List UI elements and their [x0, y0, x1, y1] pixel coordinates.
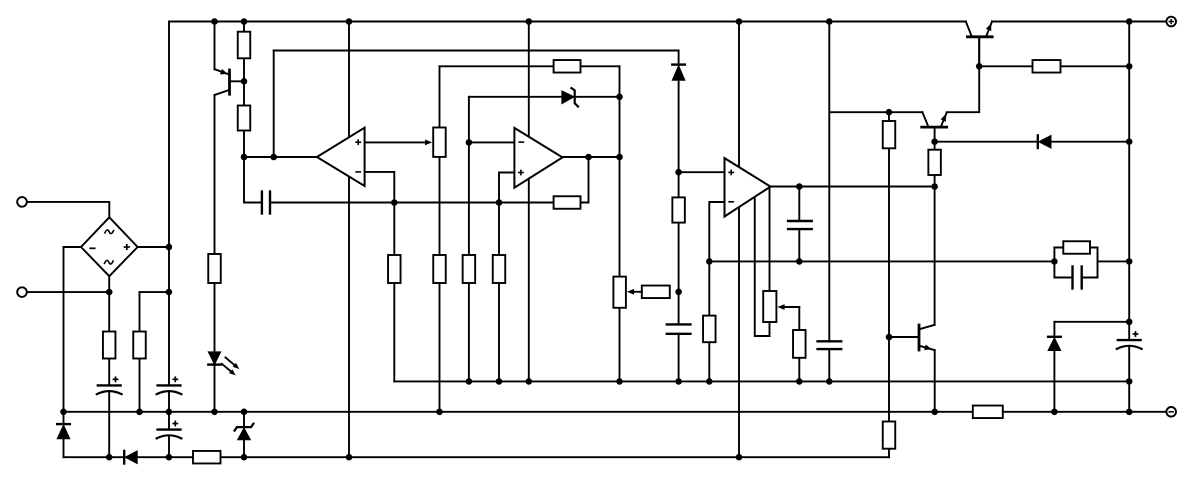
wire comp cap stub upper — [798, 187, 800, 222]
wire bridge minus column — [63, 247, 65, 424]
wire feedback cap to opamp line — [270, 202, 589, 204]
transistor Q4 emitter arrow — [986, 23, 991, 31]
junction J28 — [1051, 258, 1058, 265]
junction J49 — [436, 409, 443, 416]
wire column x934 to Q3 — [934, 142, 936, 325]
junction J3 — [346, 18, 353, 25]
wire Q1 collector diagonal — [215, 90, 230, 95]
wire opamp1 feedback vertical — [273, 51, 275, 158]
wire divider column x244 — [244, 22, 262, 203]
junction J56 — [346, 454, 353, 461]
resistor R8 — [463, 255, 476, 283]
wire input 2 to bridge bottom node — [27, 291, 110, 293]
junction J1 — [211, 18, 218, 25]
junction J13 — [931, 138, 938, 145]
resistor R3 — [238, 32, 251, 59]
electrolytic capacitor C6 — [97, 384, 122, 386]
wire input 1 to bridge top — [27, 202, 110, 217]
transistor Q2 base bar — [922, 126, 947, 129]
resistor R16 — [883, 121, 896, 148]
wire Q4 collector diagonal — [966, 22, 972, 37]
resistor R21 — [883, 422, 896, 449]
junction J8 — [241, 78, 248, 85]
wire diode branch column — [678, 80, 680, 324]
wire bridge minus vertex stub — [64, 246, 82, 248]
diode D6 bar — [1037, 135, 1039, 148]
junction J17 — [270, 154, 277, 161]
wire Q3 collector diagonal — [919, 325, 935, 330]
junction J10 — [1126, 63, 1133, 70]
wire zener run left — [469, 96, 562, 98]
wire diode run y141 — [935, 141, 1038, 143]
op-amp U3 plus label — [728, 171, 734, 173]
zener diode D5 bar — [571, 88, 578, 106]
diode D2 — [125, 451, 137, 464]
resistor R20 — [973, 406, 1003, 419]
wire pot3 bottom stub — [769, 322, 771, 336]
junction J50 — [931, 409, 938, 416]
zener diode D3 bar — [235, 424, 254, 431]
junction J39 — [675, 378, 682, 385]
capacitor C1 — [261, 190, 263, 214]
wire center vertical x348 — [348, 22, 350, 458]
wire diode run right — [1051, 141, 1129, 143]
wire bleeder resistor branch — [140, 291, 169, 293]
resistor R19 — [1063, 241, 1090, 254]
wire resistor column x499 — [498, 203, 500, 382]
wire bridge plus vertex to column — [138, 246, 169, 248]
junction J57 — [736, 454, 743, 461]
junction J11 — [616, 94, 623, 101]
bridge B1 AC mark bottom — [105, 260, 114, 264]
wire Q4 emitter diagonal — [986, 22, 992, 37]
junction J31 — [106, 289, 113, 296]
op-amp U1 — [317, 128, 365, 186]
transistor Q4 base bar — [968, 35, 993, 38]
bridge B1 AC mark top — [105, 230, 114, 234]
resistor R22 — [193, 451, 221, 464]
junction J21 — [796, 183, 803, 190]
potentiometer P2 body — [613, 277, 626, 308]
wire opamp3 lower pin to pot bottom — [755, 193, 770, 336]
junction J7 — [1126, 18, 1133, 25]
wire opamp2 feedback vertical — [588, 157, 590, 203]
junction J43 — [1126, 378, 1133, 385]
junction J45 — [136, 409, 143, 416]
op-amp U1 minus label — [355, 171, 361, 173]
bridge B1 plus mark — [124, 246, 130, 248]
junction J14 — [1126, 138, 1133, 145]
junction J52 — [1126, 409, 1133, 416]
resistor R1 — [103, 332, 116, 359]
wire opamp2 output — [563, 156, 620, 158]
wire diode branch below cap — [678, 334, 680, 382]
op-amp U2 — [514, 128, 562, 188]
LED D8 light arrow 2 — [222, 364, 231, 371]
wire left vertical from top rail to filter cap — [168, 22, 170, 386]
LED D8 bar — [208, 363, 220, 365]
wire Q2 base — [934, 127, 936, 142]
wire base resistor run — [979, 65, 1129, 67]
junction J27 — [796, 258, 803, 265]
junction J51 — [1051, 409, 1058, 416]
wire Q3 emitter diagonal — [919, 346, 935, 351]
junction J30 — [675, 289, 682, 296]
junction J22 — [931, 183, 938, 190]
wire snubber tap — [1054, 321, 1129, 323]
resistor R17 — [928, 150, 941, 175]
diode D7 bar — [1048, 336, 1061, 338]
junction J35 — [466, 378, 473, 385]
wire RC top side — [1054, 247, 1097, 249]
wire RC right side — [1097, 248, 1099, 278]
wire left vertical below cap to bottom rail — [168, 392, 170, 430]
terminal output positive — [1166, 17, 1176, 27]
diode D4 bar — [672, 63, 685, 65]
wire output sense run — [709, 260, 1054, 262]
diode D1 bar — [57, 423, 70, 425]
junction J32 — [166, 289, 173, 296]
junction J44 — [60, 409, 67, 416]
zener diode D3 — [238, 428, 251, 440]
junction J4 — [526, 18, 533, 25]
junction J18 — [585, 154, 592, 161]
wire RC output — [1098, 260, 1130, 262]
junction J54 — [166, 454, 173, 461]
junction J9 — [976, 63, 983, 70]
junction J46 — [166, 409, 173, 416]
junction J29 — [1126, 258, 1133, 265]
wire opamp1 minus input — [365, 172, 395, 203]
transistor Q2 emitter arrow — [941, 114, 946, 122]
wire upper run y66 — [440, 65, 620, 67]
wire RC bottom right — [1082, 277, 1098, 279]
potentiometer P1 body — [433, 128, 446, 157]
wire vertical x829 from rail — [828, 22, 830, 342]
wire opamp3 plus input — [679, 171, 725, 173]
wire bridge output down through resistor to cap — [108, 276, 110, 385]
wire output diode to rail — [1053, 351, 1055, 412]
junction J16 — [241, 154, 248, 161]
junction J23 — [391, 199, 398, 206]
junction J26 — [706, 258, 713, 265]
wire pot3 wiper — [784, 306, 800, 308]
op-amp U2 minus label — [518, 141, 524, 143]
junction J34 — [886, 334, 893, 341]
wire long bottom bus — [394, 380, 1129, 382]
wire Q1 collector through resistor to LED — [214, 95, 216, 352]
resistor R9 — [493, 255, 506, 283]
terminal output negative — [1166, 407, 1176, 417]
junction J6 — [826, 18, 833, 25]
junction J24 — [496, 199, 503, 206]
bridge rectifier B1 — [81, 217, 138, 276]
wire left vertical below second cap — [168, 436, 170, 457]
wire supply vertical x529 — [528, 22, 530, 382]
capacitor C3 — [787, 220, 813, 222]
op-amp U1 plus label — [355, 141, 361, 143]
wire Q1 emitter diagonal — [215, 69, 230, 74]
LED D8 — [208, 352, 220, 365]
wire below diode to bottom line — [63, 439, 65, 457]
bridge B1 minus mark — [89, 247, 95, 249]
wire supply vertical x739 — [738, 22, 740, 458]
potentiometer P2 wiper arrow — [627, 289, 634, 295]
wire zener to bottom line — [243, 440, 245, 457]
op-amp U3 minus label — [728, 201, 734, 203]
op-amp U2 plus label — [518, 172, 524, 174]
electrolytic capacitor C7 — [156, 384, 181, 386]
diode D4 — [672, 66, 685, 81]
wire Q1 base — [230, 80, 245, 82]
wire bottom negative rail — [64, 411, 1167, 413]
capacitor C5 — [1071, 265, 1073, 289]
wire opamp2 minus input — [469, 141, 515, 143]
wire opamp3 output down to pot top — [769, 187, 771, 291]
wire bleeder resistor column — [139, 292, 141, 412]
terminal input 2 — [17, 287, 27, 297]
zener diode D5 — [562, 91, 574, 104]
transistor Q1 emitter arrow — [220, 69, 228, 75]
resistor R2 — [133, 332, 146, 359]
junction J40 — [706, 378, 713, 385]
electrolytic capacitor C8 — [156, 428, 181, 430]
potentiometer P3 body — [763, 291, 776, 322]
wire Q4 base — [978, 37, 980, 67]
wire opamp3 output run — [771, 186, 935, 188]
junction J53 — [106, 454, 113, 461]
wire driver run y112 — [829, 111, 922, 113]
wire column x889 — [888, 112, 890, 457]
LED D8 light arrow 1 — [226, 358, 235, 365]
resistor R5 — [208, 254, 221, 283]
potentiometer P2 wiper wire — [634, 291, 642, 293]
wire column x619 — [619, 66, 621, 381]
wire pot3 wiper branch down — [798, 307, 800, 381]
diode D1 — [57, 425, 70, 439]
junction J37 — [526, 378, 533, 385]
resistor R6 — [388, 255, 401, 283]
electrolytic capacitor C9 — [1117, 339, 1142, 341]
wire resistor column x469 — [468, 97, 470, 382]
wire Q2 emitter run — [947, 37, 980, 112]
wire Q2 emitter diagonal — [941, 113, 947, 128]
junction J12 — [886, 109, 893, 116]
wire RC bottom left — [1054, 277, 1072, 279]
junction J33 — [1126, 319, 1133, 326]
terminal input 1 — [17, 197, 27, 207]
wire top rail right segment to output — [992, 21, 1166, 23]
wire RC left side — [1053, 248, 1055, 278]
junction J41 — [796, 378, 803, 385]
junction J38 — [616, 378, 623, 385]
junction J36 — [496, 378, 503, 385]
wire diode branch top — [678, 51, 680, 65]
wire opamp1 output — [244, 156, 317, 158]
resistor R14 — [642, 286, 670, 299]
transistor Q3 emitter arrow — [924, 345, 932, 351]
capacitor C2 — [666, 323, 692, 325]
potentiometer P3 wiper arrow — [777, 304, 784, 310]
wire zener branch below rail — [243, 412, 245, 427]
transistor Q1 base bar — [228, 70, 231, 94]
junction J5 — [736, 18, 743, 25]
wire resistor column x394 — [393, 203, 395, 382]
wire bottom return line — [64, 456, 125, 458]
wire feedback top run — [274, 50, 679, 52]
junction J48 — [241, 409, 248, 416]
resistor R4 — [238, 106, 251, 131]
resistor R12 — [672, 197, 685, 222]
diode D7 — [1048, 338, 1061, 351]
junction J2 — [241, 18, 248, 25]
resistor R10 — [554, 60, 581, 73]
junction J25 — [166, 244, 173, 251]
resistor R7 — [433, 255, 446, 283]
op-amp U3 — [725, 158, 771, 216]
wire output column x1129 lower — [1128, 347, 1130, 412]
wire opamp2 plus input — [499, 173, 514, 203]
wire Q1 emitter from rail — [214, 22, 216, 70]
junction J19 — [616, 154, 623, 161]
diode D2 bar — [123, 451, 125, 464]
resistor R11 — [554, 196, 581, 209]
potentiometer P1 wiper arrow — [425, 140, 432, 146]
wire Q3 emitter to rail — [934, 350, 936, 412]
wire opamp3 minus input — [709, 202, 724, 381]
wire Q2 collector diagonal — [922, 112, 928, 127]
wire pot1 column — [439, 66, 441, 412]
wire bottom return line right of diode — [137, 456, 889, 458]
wire LED cathode to rail — [214, 365, 216, 412]
diode D6 — [1039, 135, 1051, 148]
transistor Q3 base bar — [918, 325, 921, 350]
junction J42 — [826, 378, 833, 385]
wire output diode column — [1053, 322, 1055, 337]
resistor R18 — [1033, 60, 1061, 73]
wire Q3 base — [889, 336, 919, 338]
wire comp cap stub lower — [798, 229, 800, 261]
junction J55 — [241, 454, 248, 461]
capacitor C4 — [816, 340, 842, 342]
junction J15 — [466, 139, 473, 146]
wire output column x1129 upper — [1128, 22, 1130, 341]
resistor R13 — [703, 316, 716, 343]
junction J47 — [211, 409, 218, 416]
wire opamp1 plus input to pot wiper — [365, 141, 427, 143]
wire vertical x829 below cap — [828, 349, 830, 381]
wire zener run right — [575, 96, 620, 98]
wire top positive rail — [169, 21, 966, 23]
resistor R15 — [793, 330, 806, 358]
wire below cap crossing rail — [108, 392, 110, 457]
junction J20 — [675, 169, 682, 176]
